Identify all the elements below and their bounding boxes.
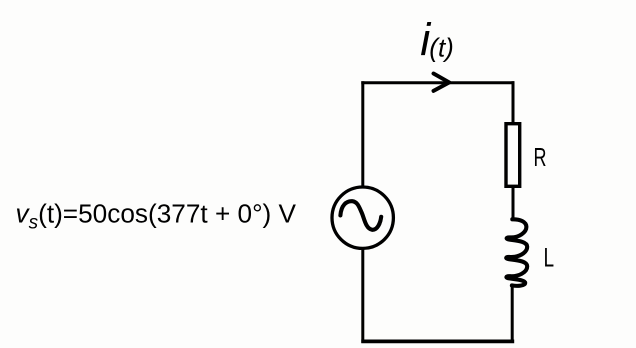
wire left vertical lower (361, 249, 364, 343)
source V1 circle (332, 187, 393, 248)
inductor L coil (506, 219, 527, 286)
svg-text:R: R (534, 144, 547, 172)
svg-text:(t): (t) (429, 33, 454, 63)
wire top horizontal (361, 81, 514, 84)
wire bottom horizontal (361, 339, 514, 343)
source sine symbol (340, 201, 381, 230)
current arrow (434, 74, 450, 91)
svg-text:vs(t)=50cos(377t + 0°) V: vs(t)=50cos(377t + 0°) V (16, 198, 297, 233)
wire resistor to inductor (512, 188, 515, 222)
resistor R body (506, 124, 520, 187)
svg-text:L: L (544, 243, 555, 273)
wire inductor to bottom (511, 285, 514, 343)
wire left vertical upper (361, 81, 364, 186)
wire right vertical upper (512, 81, 515, 123)
